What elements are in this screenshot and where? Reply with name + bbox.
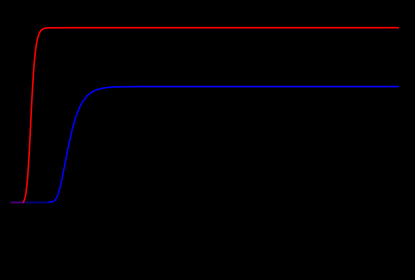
red curve: [23, 28, 399, 203]
blue curve: [48, 87, 399, 203]
blue baseline segment (dim navy): [11, 201, 49, 203]
red baseline segment (dim, under blue): [11, 201, 24, 203]
